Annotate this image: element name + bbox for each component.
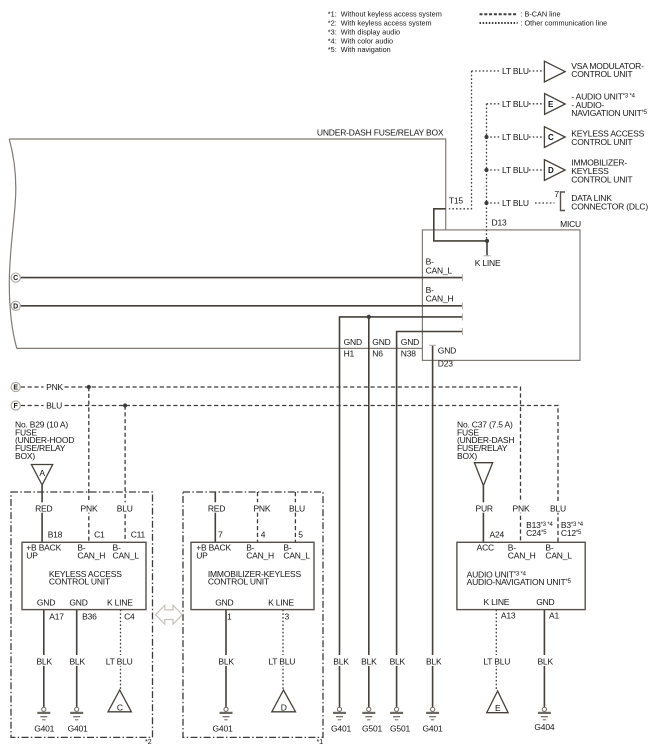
svg-text:With color audio: With color audio: [341, 36, 393, 45]
svg-text:BLU: BLU: [117, 503, 133, 513]
svg-text:GND: GND: [215, 598, 233, 608]
svg-text:*2:: *2:: [328, 19, 337, 28]
svg-text:CAN_H: CAN_H: [426, 294, 454, 304]
svg-text:E: E: [548, 100, 554, 109]
svg-text:C11: C11: [131, 529, 146, 539]
svg-text:G401: G401: [423, 723, 443, 733]
svg-text:F: F: [14, 403, 19, 410]
svg-text:C1: C1: [94, 529, 105, 539]
svg-text:BLK: BLK: [390, 656, 406, 666]
svg-text:C: C: [548, 133, 554, 142]
svg-text:NAVIGATION UNIT*5: NAVIGATION UNIT*5: [571, 108, 647, 118]
svg-text:BOX): BOX): [457, 451, 477, 461]
svg-text:G401: G401: [213, 723, 233, 733]
svg-text:GND: GND: [401, 337, 419, 347]
svg-text:K LINE: K LINE: [475, 258, 501, 268]
svg-text:BLU: BLU: [289, 503, 305, 513]
svg-text:LT BLU: LT BLU: [502, 66, 529, 76]
svg-text:5: 5: [298, 529, 303, 539]
svg-text:BLK: BLK: [69, 656, 85, 666]
svg-text:4: 4: [261, 529, 266, 539]
svg-text:Without keyless access system: Without keyless access system: [341, 10, 442, 19]
svg-text:BLU: BLU: [46, 400, 62, 410]
svg-text:D: D: [13, 304, 18, 311]
svg-text:H1: H1: [344, 348, 355, 358]
svg-text:A1: A1: [549, 610, 559, 620]
svg-text:UP: UP: [196, 551, 208, 561]
svg-text:: Other communication line: : Other communication line: [520, 19, 607, 28]
svg-text:3: 3: [285, 612, 290, 622]
svg-text:PUR: PUR: [476, 503, 493, 513]
svg-text:PNK: PNK: [46, 382, 63, 392]
svg-text:LT BLU: LT BLU: [268, 656, 295, 666]
svg-text:*4:: *4:: [328, 36, 337, 45]
svg-text:E: E: [495, 703, 501, 713]
svg-text:GND: GND: [536, 597, 554, 607]
svg-text:BLU: BLU: [550, 503, 566, 513]
svg-text:BLK: BLK: [361, 656, 377, 666]
svg-text:: B-CAN line: : B-CAN line: [520, 10, 560, 19]
svg-text:With navigation: With navigation: [341, 45, 391, 54]
svg-text:PNK: PNK: [513, 503, 530, 513]
svg-text:GND: GND: [438, 346, 456, 356]
svg-text:*3:: *3:: [328, 28, 337, 37]
svg-text:LT BLU: LT BLU: [502, 132, 529, 142]
svg-text:PNK: PNK: [253, 503, 270, 513]
svg-text:B18: B18: [48, 529, 63, 539]
svg-text:With keyless access system: With keyless access system: [341, 19, 432, 28]
svg-text:CONNECTOR (DLC): CONNECTOR (DLC): [571, 201, 648, 211]
svg-text:*5:: *5:: [328, 45, 337, 54]
svg-text:BLK: BLK: [36, 656, 52, 666]
svg-text:A24: A24: [490, 530, 505, 540]
svg-text:C4: C4: [124, 612, 135, 622]
svg-text:CAN_H: CAN_H: [246, 551, 274, 561]
svg-text:D13: D13: [492, 217, 507, 227]
svg-text:G401: G401: [331, 723, 351, 733]
svg-text:CONTROL UNIT: CONTROL UNIT: [49, 576, 110, 586]
svg-text:GND: GND: [372, 337, 390, 347]
svg-text:*1:: *1:: [328, 10, 337, 19]
svg-text:CONTROL UNIT: CONTROL UNIT: [571, 174, 632, 184]
svg-text:K LINE: K LINE: [268, 598, 294, 608]
svg-text:D: D: [281, 703, 287, 713]
svg-text:ACC: ACC: [477, 543, 494, 553]
svg-text:PNK: PNK: [81, 503, 98, 513]
svg-text:BLK: BLK: [426, 656, 442, 666]
svg-text:G501: G501: [390, 723, 410, 733]
svg-text:CAN_L: CAN_L: [283, 551, 310, 561]
svg-text:G404: G404: [534, 722, 554, 732]
svg-text:A: A: [39, 468, 45, 478]
svg-text:AUDIO-NAVIGATION UNIT*5: AUDIO-NAVIGATION UNIT*5: [467, 577, 572, 587]
svg-text:CONTROL UNIT: CONTROL UNIT: [571, 137, 632, 147]
svg-text:GND: GND: [69, 598, 87, 608]
svg-text:CAN_H: CAN_H: [77, 551, 105, 561]
svg-text:C: C: [13, 275, 18, 282]
svg-text:D: D: [548, 166, 554, 175]
svg-text:MICU: MICU: [560, 219, 581, 229]
svg-text:*1: *1: [317, 737, 324, 746]
svg-text:UP: UP: [26, 551, 38, 561]
svg-text:BLK: BLK: [537, 656, 553, 666]
svg-text:RED: RED: [208, 503, 225, 513]
svg-text:*2: *2: [145, 737, 152, 746]
svg-text:CONTROL UNIT: CONTROL UNIT: [208, 576, 269, 586]
svg-text:B36: B36: [82, 612, 97, 622]
svg-text:CAN_L: CAN_L: [113, 551, 140, 561]
svg-text:N38: N38: [401, 348, 416, 358]
svg-text:K LINE: K LINE: [107, 598, 133, 608]
svg-text:CONTROL UNIT: CONTROL UNIT: [571, 69, 632, 79]
svg-text:CAN_L: CAN_L: [545, 551, 572, 561]
svg-text:LT BLU: LT BLU: [502, 99, 529, 109]
svg-text:A17: A17: [49, 612, 64, 622]
svg-text:G401: G401: [34, 723, 54, 733]
svg-text:GND: GND: [37, 598, 55, 608]
svg-text:LT BLU: LT BLU: [502, 165, 529, 175]
svg-text:LT BLU: LT BLU: [502, 198, 529, 208]
svg-text:C: C: [117, 703, 123, 713]
svg-text:LT BLU: LT BLU: [106, 656, 133, 666]
svg-text:A13: A13: [501, 610, 516, 620]
svg-text:7: 7: [218, 529, 223, 539]
svg-text:With display audio: With display audio: [341, 28, 400, 37]
svg-text:CAN_H: CAN_H: [508, 551, 536, 561]
svg-text:GND: GND: [344, 337, 362, 347]
svg-text:7: 7: [554, 189, 559, 199]
svg-text:RED: RED: [35, 503, 52, 513]
svg-text:N6: N6: [372, 348, 383, 358]
svg-text:BOX): BOX): [15, 451, 35, 461]
svg-text:CAN_L: CAN_L: [426, 265, 453, 275]
svg-text:UNDER-DASH FUSE/RELAY BOX: UNDER-DASH FUSE/RELAY BOX: [317, 128, 444, 138]
svg-text:K LINE: K LINE: [484, 597, 510, 607]
svg-text:E: E: [13, 385, 18, 392]
svg-text:LT BLU: LT BLU: [483, 656, 510, 666]
svg-text:1: 1: [227, 612, 232, 622]
svg-text:T15: T15: [449, 195, 464, 205]
svg-text:BLK: BLK: [333, 656, 349, 666]
svg-text:G501: G501: [362, 723, 382, 733]
svg-text:BLK: BLK: [218, 656, 234, 666]
svg-text:G401: G401: [68, 723, 88, 733]
svg-text:D23: D23: [438, 359, 453, 369]
